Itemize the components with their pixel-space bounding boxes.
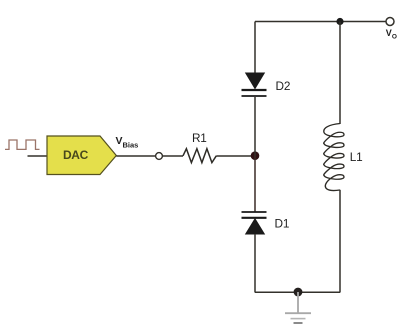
ground bbox=[285, 292, 311, 323]
svg-text:D1: D1 bbox=[275, 217, 290, 231]
svg-text:L1: L1 bbox=[350, 150, 363, 164]
svg-text:D2: D2 bbox=[276, 79, 291, 93]
node junction (bias node, dark red) bbox=[251, 151, 260, 160]
wire D2 to junction bbox=[254, 97, 256, 156]
top rail wire bbox=[255, 21, 386, 23]
wire R1 to junction bbox=[216, 155, 255, 157]
resistor R1 bbox=[183, 149, 216, 163]
bottom rail wire bbox=[255, 291, 340, 293]
input square wave bbox=[5, 140, 40, 149]
wire terminal to R1 bbox=[162, 155, 183, 157]
wire output node down to L1 bbox=[339, 22, 341, 125]
wire D1 to bottom rail bbox=[254, 234, 256, 293]
svg-text:R1: R1 bbox=[192, 131, 207, 145]
wire DAC tip to terminal bbox=[116, 155, 155, 157]
svg-text:VBias: VBias bbox=[116, 135, 139, 150]
wire L1 to bottom rail bbox=[339, 190, 341, 293]
varactor D1 bbox=[242, 212, 267, 234]
inductor L1 bbox=[324, 124, 344, 191]
wire top rail corner down to D2 bbox=[254, 22, 256, 74]
terminal VO open circle bbox=[386, 18, 394, 26]
wire junction to D1 bbox=[254, 156, 256, 212]
terminal open circle bbox=[156, 153, 163, 160]
varactor D2 bbox=[242, 73, 267, 96]
svg-text:DAC: DAC bbox=[63, 148, 89, 162]
svg-text:VO: VO bbox=[386, 28, 397, 41]
node ground junction bbox=[294, 288, 303, 297]
wire input to DAC bbox=[28, 155, 49, 157]
node output junction bbox=[336, 18, 343, 25]
DAC U1 bbox=[47, 136, 116, 175]
